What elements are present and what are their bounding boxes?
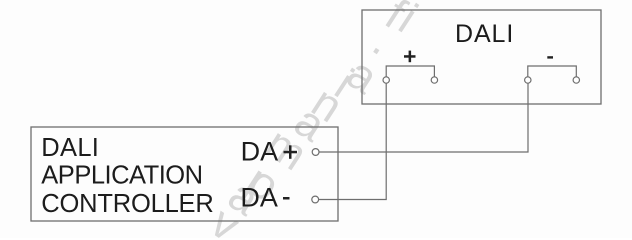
terminal circle -2 bbox=[573, 77, 579, 83]
DALI device box bbox=[362, 10, 601, 104]
terminal circle DA+ bbox=[312, 149, 319, 156]
label + (DALI bus positive) bbox=[404, 51, 416, 63]
label - (DALI bus negative) bbox=[547, 56, 553, 58]
svg-text:DA: DA bbox=[241, 137, 279, 167]
wire DA+ to - terminal bbox=[319, 83, 528, 152]
DALI application controller box bbox=[31, 127, 338, 221]
terminal circle +1 bbox=[383, 77, 389, 83]
svg-text:DA: DA bbox=[240, 183, 278, 213]
terminal bracket + pair bbox=[386, 66, 434, 77]
svg-text:DALI: DALI bbox=[455, 20, 514, 48]
terminal circle -1 bbox=[525, 77, 531, 83]
terminal bracket - pair bbox=[528, 66, 577, 77]
svg-text:CONTROLLER: CONTROLLER bbox=[41, 190, 213, 218]
wire DA- to + terminal bbox=[319, 83, 387, 199]
svg-text:DALI: DALI bbox=[41, 134, 99, 162]
terminal circle DA- bbox=[312, 196, 319, 203]
svg-text:APPLICATION: APPLICATION bbox=[41, 162, 202, 190]
terminal circle +2 bbox=[431, 77, 437, 83]
